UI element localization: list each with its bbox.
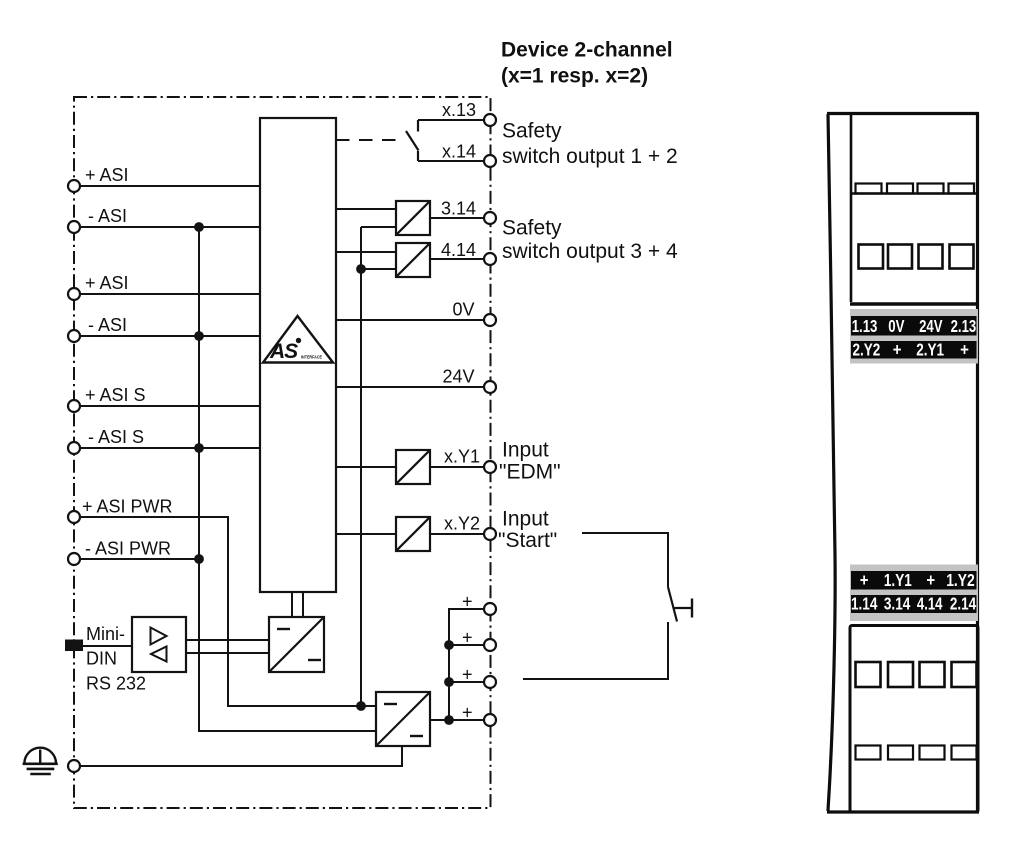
terminal 24V (484, 381, 496, 393)
svg-text:24V: 24V (442, 367, 474, 387)
terminal -ASI S (68, 442, 80, 454)
opto-coupler O1 (3.14) (396, 201, 430, 235)
svg-text:1.14: 1.14 (851, 594, 878, 614)
svg-text:0V: 0V (452, 300, 474, 320)
wire +ASI S (80, 405, 260, 407)
node converter2 input (356, 701, 366, 711)
node -ASI 1 (194, 222, 204, 232)
terminal +ASI PWR (68, 511, 80, 523)
svg-text:- ASI PWR: - ASI PWR (85, 539, 171, 559)
svg-text:2.Y1: 2.Y1 (916, 340, 944, 360)
AS-Interface logo (263, 316, 333, 363)
wire x.Y2 input (336, 533, 396, 535)
svg-text:x.Y1: x.Y1 (444, 447, 480, 467)
lower terminal block (850, 626, 978, 813)
Mini-DIN connector plug (65, 640, 83, 652)
svg-text:+ ASI: + ASI (85, 165, 129, 185)
svg-text:+: + (960, 340, 969, 360)
lower screws (856, 746, 881, 760)
svg-text:2.13: 2.13 (951, 316, 977, 336)
svg-text:2.Y2: 2.Y2 (853, 340, 881, 360)
Mini-DIN connector wire (83, 645, 132, 647)
main block U1 (260, 118, 336, 592)
terminal x.13 (484, 114, 496, 126)
wire 3.14 inputs (336, 208, 396, 210)
svg-text:4.14: 4.14 (441, 240, 476, 260)
DC/DC converter U4 (376, 692, 430, 746)
module outline (828, 114, 835, 811)
svg-text:"EDM": "EDM" (499, 461, 561, 484)
svg-text:INTERFACE: INTERFACE (301, 354, 322, 359)
svg-text:1.13: 1.13 (852, 316, 878, 336)
svg-text:x.Y2: x.Y2 (444, 514, 480, 534)
svg-text:+ ASI PWR: + ASI PWR (82, 497, 173, 517)
svg-text:AS: AS (269, 340, 298, 363)
terminal +ASI S (68, 400, 80, 412)
svg-text:+: + (462, 703, 473, 723)
svg-text:Device 2-channel: Device 2-channel (501, 39, 673, 62)
svg-text:"Start": "Start" (498, 529, 557, 552)
wire ground to converter (80, 746, 402, 766)
wire -ASI bus (199, 227, 376, 731)
svg-text:Input: Input (502, 508, 549, 531)
svg-text:1.Y1: 1.Y1 (884, 570, 912, 590)
svg-text:+ ASI: + ASI (85, 273, 129, 293)
wire -ASI 2 (80, 335, 260, 337)
svg-text:3.14: 3.14 (884, 594, 911, 614)
label strip band 1 (850, 309, 978, 364)
terminal circles left (68, 114, 496, 772)
wire converter2 output (430, 719, 484, 721)
wires RS232 to converter1 (186, 639, 269, 641)
svg-text:Mini-: Mini- (86, 624, 125, 644)
terminal x.Y1 (484, 461, 496, 473)
terminal plus4 (484, 714, 496, 726)
device boundary (dash-dot border) (74, 97, 491, 808)
terminal plus3 (484, 676, 496, 688)
svg-text:switch output 3 + 4: switch output 3 + 4 (502, 240, 678, 263)
ground symbol (24, 748, 56, 764)
DC/DC converter U3 (269, 617, 324, 672)
svg-text:- ASI: - ASI (88, 315, 127, 335)
wire -ASI PWR (80, 558, 199, 560)
node -ASI 2 (194, 331, 204, 341)
svg-text:(x=1 resp. x=2): (x=1 resp. x=2) (501, 65, 648, 88)
svg-text:- ASI: - ASI (88, 206, 127, 226)
terminal x.14 (484, 155, 496, 167)
svg-text:+: + (893, 340, 902, 360)
svg-text:+: + (462, 628, 473, 648)
node 4.14 input (356, 264, 366, 274)
svg-text:switch output 1 + 2: switch output 1 + 2 (502, 145, 678, 168)
svg-text:+: + (462, 592, 473, 612)
wire 3.14 output (430, 217, 484, 219)
wire x.Y2 output (430, 533, 484, 535)
svg-text:+: + (926, 570, 935, 590)
wire +ASI PWR (80, 517, 376, 706)
wire 24V (336, 386, 484, 388)
svg-text:3.14: 3.14 (441, 199, 476, 219)
wire x.Y1 output (430, 466, 484, 468)
svg-text:DIN: DIN (86, 649, 117, 669)
node -ASI PWR (194, 554, 204, 564)
upper terminal screws (856, 184, 882, 194)
terminal +ASI 1 (68, 180, 80, 192)
wire dashed actuation link (336, 139, 405, 141)
wire 4.14 inputs (336, 251, 396, 253)
svg-text:1.Y2: 1.Y2 (946, 570, 975, 590)
device module drawing (827, 114, 979, 813)
terminal plus1 (484, 603, 496, 615)
wire 0V (336, 319, 484, 321)
wire x.13 (418, 119, 484, 121)
node plus bus 3 (444, 677, 454, 687)
node plus bus 4 (444, 715, 454, 725)
svg-text:x.13: x.13 (442, 100, 476, 120)
svg-text:Input: Input (502, 439, 549, 462)
switch actuator (675, 607, 693, 609)
junction dots (194, 222, 454, 725)
terminal x.Y2 (484, 528, 496, 540)
wire x.Y1 input (336, 466, 396, 468)
svg-text:+: + (462, 665, 473, 685)
relay contact K1 (x.13/x.14) (417, 120, 419, 132)
wires block to converter1 (291, 592, 293, 617)
terminal 0V (484, 314, 496, 326)
wire -ASI S (80, 447, 260, 449)
svg-text:RS 232: RS 232 (86, 674, 146, 694)
node plus bus 2 (444, 640, 454, 650)
svg-text:x.14: x.14 (442, 142, 476, 162)
svg-text:24V: 24V (919, 316, 943, 336)
module front edge (850, 114, 853, 303)
upper terminal holes (859, 245, 884, 269)
terminal +ASI 2 (68, 288, 80, 300)
wire 24V-junction vertical (360, 227, 362, 706)
wire + terminal bus (449, 609, 484, 720)
opto-coupler O4 (x.Y2) (396, 517, 430, 551)
terminal 4.14 (484, 253, 496, 265)
wire x.14 (418, 160, 484, 162)
svg-text:Safety: Safety (502, 217, 562, 240)
svg-text:0V: 0V (888, 316, 904, 336)
wire +ASI 1 (80, 185, 260, 187)
terminal -ASI 1 (68, 221, 80, 233)
terminal plus2 (484, 639, 496, 651)
svg-text:2.14: 2.14 (950, 594, 977, 614)
upper terminal block (851, 192, 977, 195)
svg-text:+ ASI S: + ASI S (85, 385, 146, 405)
terminal 3.14 (484, 212, 496, 224)
opto-coupler O2 (4.14) (396, 243, 430, 277)
terminal -ASI PWR (68, 553, 80, 565)
external start switch S1 (582, 533, 668, 587)
terminal ground (68, 760, 80, 772)
svg-text:+: + (860, 570, 869, 590)
label strip band 2 (850, 565, 978, 622)
opto-coupler O3 (x.Y1) (396, 450, 430, 484)
wire 4.14 output (430, 258, 484, 260)
svg-text:4.14: 4.14 (917, 594, 943, 614)
wire +ASI 2 (80, 293, 260, 295)
svg-text:- ASI S: - ASI S (88, 427, 144, 447)
node -ASI S (194, 443, 204, 453)
svg-text:Safety: Safety (502, 120, 562, 143)
terminal -ASI 2 (68, 330, 80, 342)
RS232 buffer U2 (132, 617, 186, 672)
wire -ASI 1 (80, 226, 260, 228)
